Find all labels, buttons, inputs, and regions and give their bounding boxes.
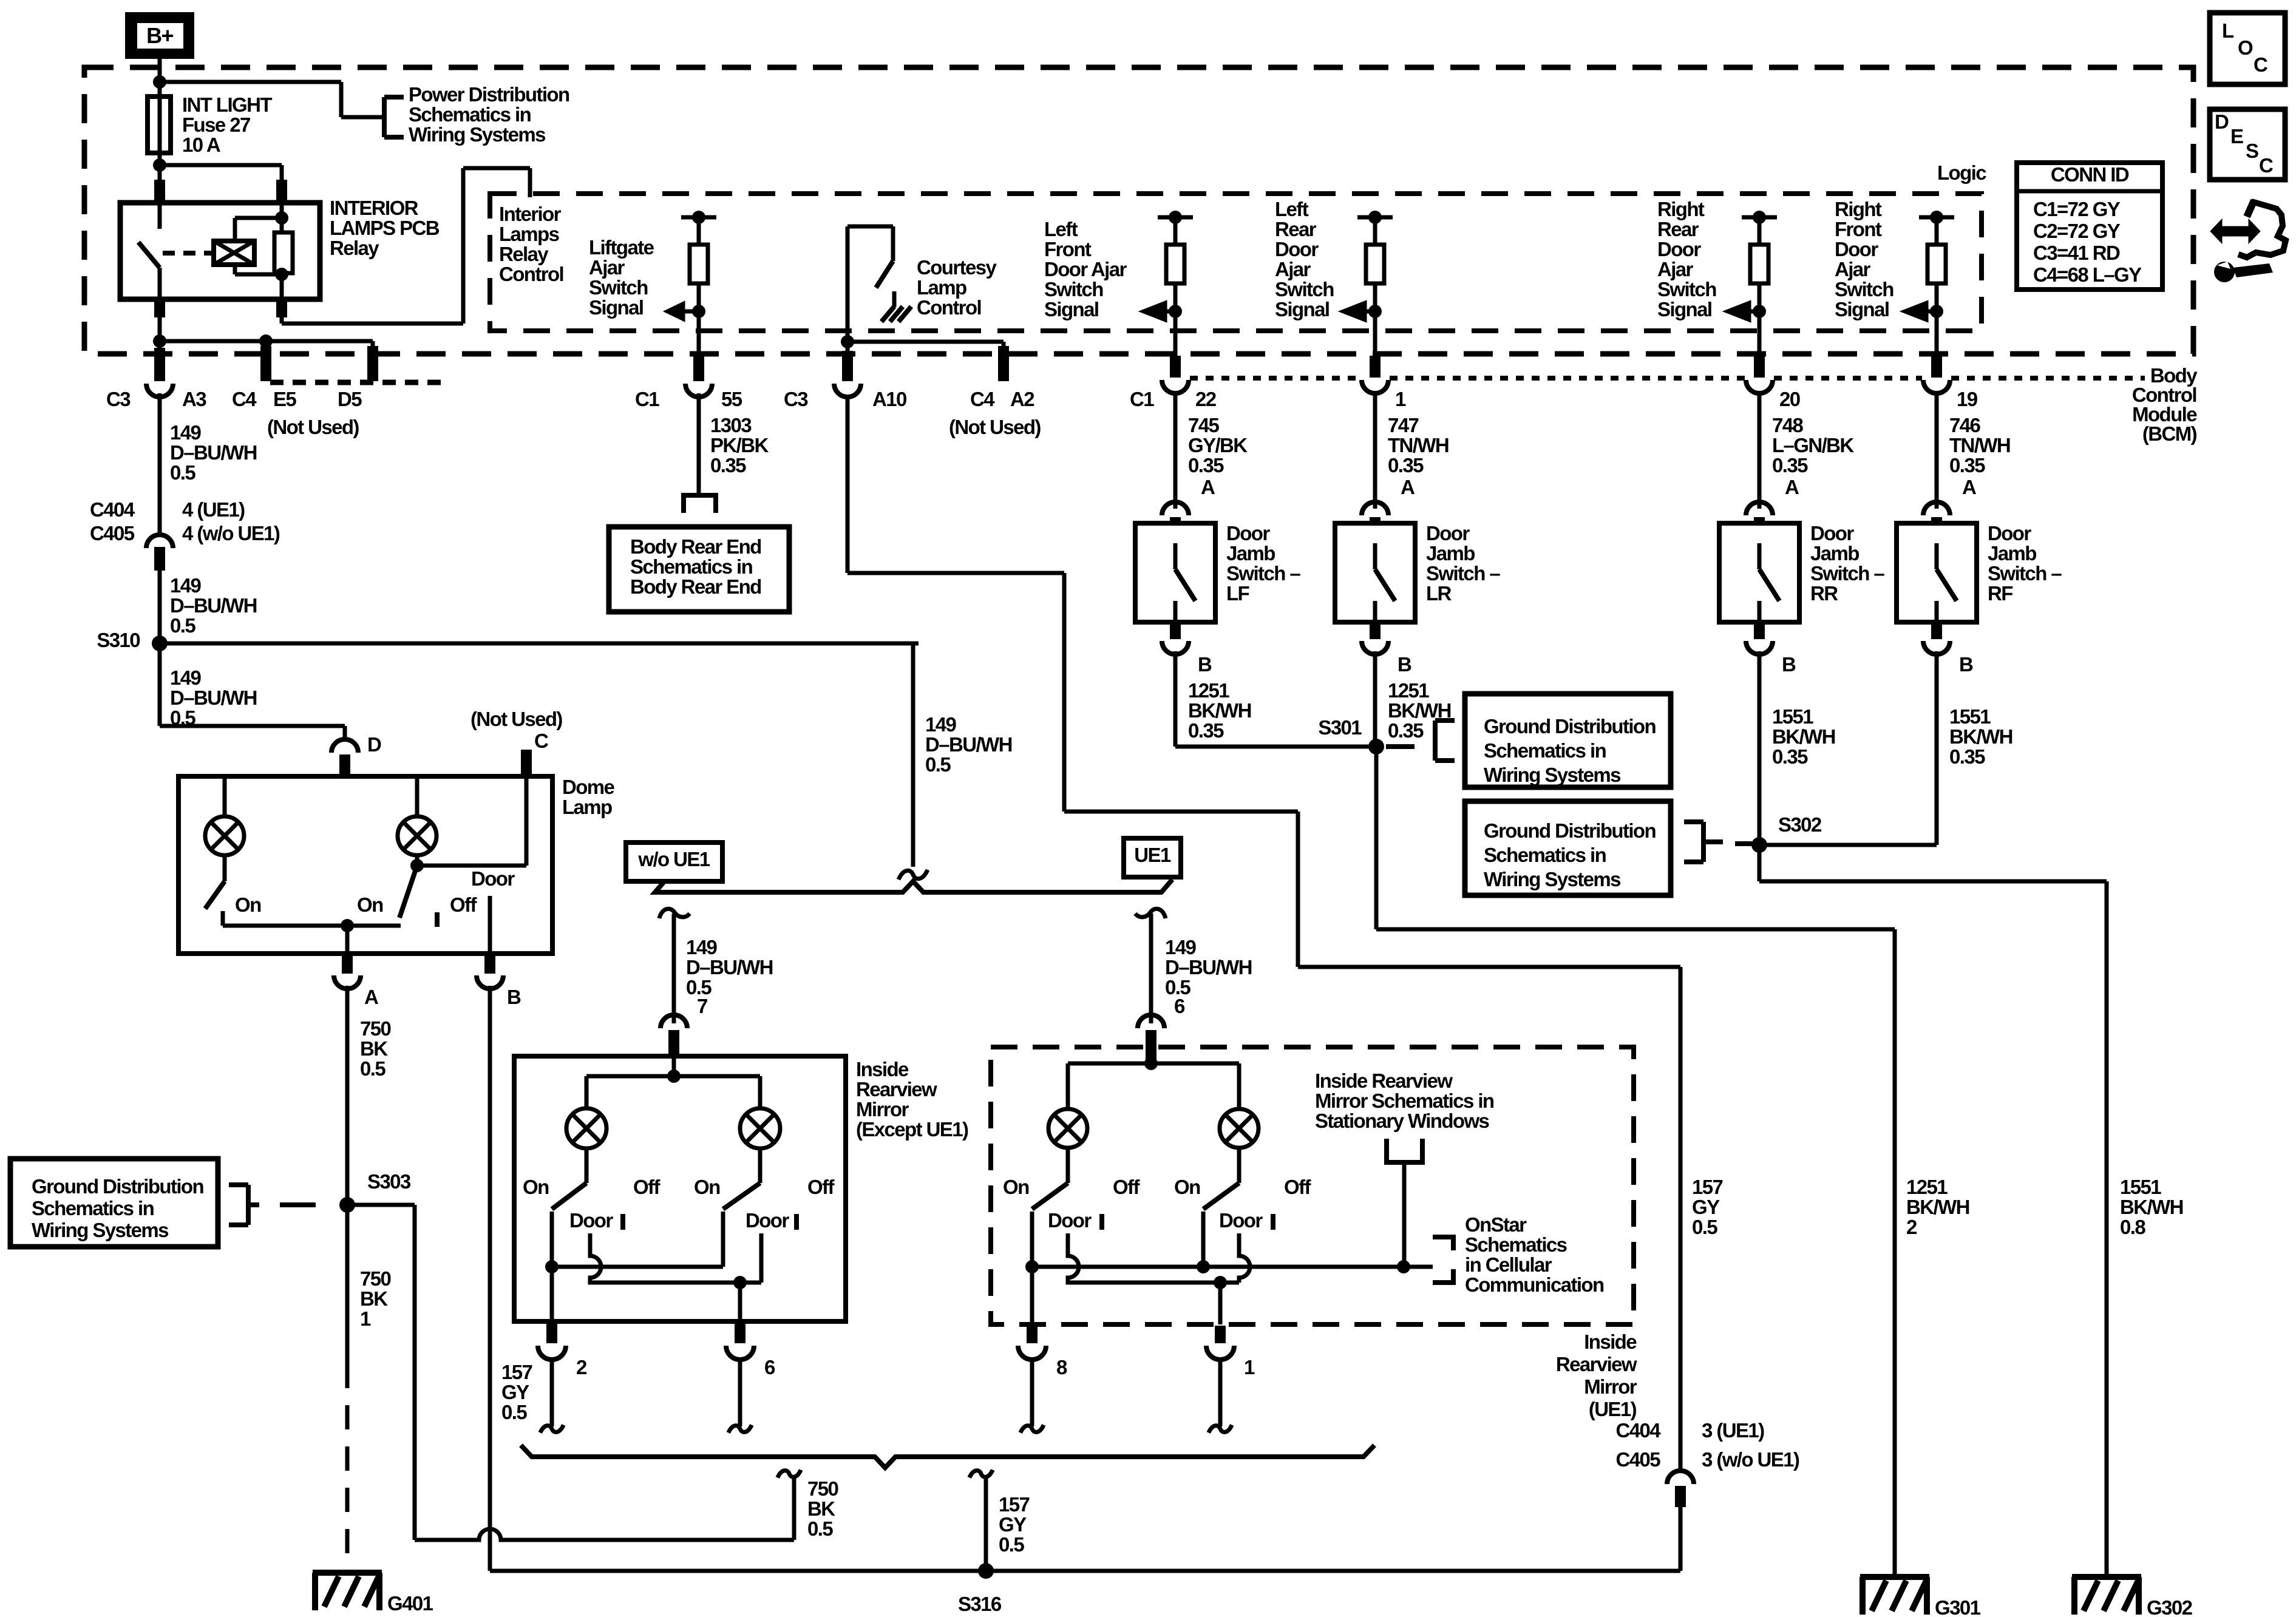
wire relay switch output [158, 317, 162, 349]
svg-text:Jamb: Jamb [1810, 542, 1859, 564]
wire courtesy branch to C4-A2 [847, 340, 1004, 344]
UE1 mirror left lamp [1066, 1063, 1070, 1109]
fine dotted BCM connector line [1190, 376, 1360, 381]
svg-text:Left: Left [1044, 218, 1078, 240]
svg-text:0.35: 0.35 [1388, 719, 1424, 742]
svg-text:Lamps: Lamps [499, 223, 559, 245]
UE1 mirror switch common bus [1032, 1265, 1433, 1269]
node courtesy output [841, 335, 854, 348]
svg-text:LAMPS PCB: LAMPS PCB [330, 217, 440, 239]
svg-text:TN/WH: TN/WH [1388, 434, 1449, 456]
UE1 mirror pin 1 [1218, 1283, 1223, 1324]
svg-text:Stationary Windows: Stationary Windows [1315, 1110, 1489, 1132]
courtesy lamp control switch [846, 226, 850, 342]
svg-text:Courtesy: Courtesy [917, 256, 997, 279]
svg-text:G401: G401 [387, 1592, 433, 1615]
svg-text:Schematics: Schematics [1465, 1233, 1567, 1256]
svg-text:Front: Front [1044, 238, 1092, 260]
wire RR through BCM connector [1758, 311, 1762, 356]
svg-text:B: B [1782, 653, 1796, 676]
svg-text:Off: Off [1284, 1176, 1311, 1198]
connector B jamb switch RF [1931, 622, 1942, 639]
svg-text:C: C [2259, 154, 2273, 177]
svg-text:4 (w/o UE1): 4 (w/o UE1) [182, 522, 280, 544]
in-line connector C404/C405 [146, 535, 173, 548]
svg-text:0.8: 0.8 [2120, 1216, 2145, 1238]
UE1 mirror left switch [1066, 1148, 1070, 1183]
svg-text:0.35: 0.35 [1188, 719, 1224, 742]
svg-text:Ajar: Ajar [1275, 258, 1311, 280]
CONN ID table [2017, 163, 2162, 290]
wire LF through BCM connector [1173, 311, 1178, 356]
curl left branch [659, 909, 690, 918]
svg-text:22: 22 [1195, 388, 1217, 410]
break symbol [898, 870, 928, 880]
svg-text:Door: Door [1810, 522, 1854, 544]
wire with hop over pin B wire [415, 1529, 794, 1540]
svg-text:Switch –: Switch – [1810, 562, 1884, 585]
svg-text:BK: BK [360, 1287, 388, 1310]
svg-text:149: 149 [925, 713, 957, 736]
svg-text:G302: G302 [2147, 1596, 2193, 1617]
wire S310 down to dome lamp [158, 643, 162, 726]
svg-text:A2: A2 [1010, 388, 1034, 410]
svg-text:Mirror: Mirror [856, 1098, 909, 1120]
svg-text:GY/BK: GY/BK [1188, 434, 1248, 456]
mirror left lamp [585, 1076, 589, 1109]
bracket S301 to ground box [1386, 744, 1415, 749]
svg-text:D–BU/WH: D–BU/WH [1165, 956, 1252, 978]
arrow door ajar signal LF [1166, 310, 1175, 314]
svg-text:Switch –: Switch – [1226, 562, 1300, 585]
DESC reference box [2210, 109, 2285, 180]
svg-text:0.5: 0.5 [170, 461, 195, 484]
svg-text:Ajar: Ajar [1835, 258, 1871, 280]
door jamb switch LF box [1135, 523, 1215, 622]
svg-text:C1=72 GY: C1=72 GY [2033, 198, 2121, 220]
svg-text:A: A [364, 986, 378, 1008]
dome switch Door wire to pin B [488, 896, 492, 954]
svg-text:Jamb: Jamb [1426, 542, 1475, 564]
svg-text:A3: A3 [182, 388, 206, 410]
svg-text:Ajar: Ajar [1657, 258, 1694, 280]
bracket S303 to ground box [246, 1185, 251, 1225]
box Ground Distribution (S302) [1465, 801, 1671, 895]
svg-text:7: 7 [697, 995, 707, 1017]
svg-text:S303: S303 [367, 1170, 411, 1193]
wire liftgate to C1-55 [697, 311, 701, 356]
svg-text:Off: Off [1113, 1176, 1140, 1198]
svg-text:Signal: Signal [589, 296, 643, 319]
wire LF jamb B to S301 [1173, 651, 1178, 747]
svg-text:Door: Door [1657, 238, 1701, 260]
connector A jamb switch LF [1162, 502, 1189, 515]
dome switch Off contact [435, 912, 440, 927]
svg-text:149: 149 [170, 574, 202, 597]
relay pin stubs top [154, 180, 165, 202]
svg-text:1251: 1251 [1188, 679, 1229, 702]
box Inside Rearview Mirror UE1 dashed [991, 1047, 1634, 1324]
svg-text:Ground Distribution: Ground Distribution [1484, 715, 1656, 737]
mirror pin 2 [550, 1267, 554, 1323]
UE1 mirror right switch [1237, 1148, 1241, 1183]
svg-text:Door: Door [1426, 522, 1470, 544]
connector A jamb switch RR [1746, 502, 1773, 515]
svg-text:0.35: 0.35 [1388, 454, 1424, 476]
svg-text:C3: C3 [784, 388, 808, 410]
dome lamp pin A [345, 926, 350, 956]
arrow door ajar signal RR [1750, 310, 1759, 314]
svg-text:(UE1): (UE1) [1589, 1398, 1637, 1420]
svg-text:Door: Door [569, 1209, 613, 1232]
svg-text:Wiring Systems: Wiring Systems [32, 1219, 168, 1241]
UE1 mirror right lamp [1237, 1063, 1241, 1109]
wire RF through BCM connector [1935, 311, 1939, 356]
svg-text:Lamp: Lamp [917, 276, 966, 299]
wire RF jamb B to S302 [1935, 651, 1939, 845]
svg-text:1551: 1551 [1949, 705, 1991, 728]
svg-text:B: B [1198, 653, 1212, 676]
svg-text:C1: C1 [635, 388, 659, 410]
svg-text:Inside: Inside [1584, 1331, 1637, 1353]
svg-text:Signal: Signal [1044, 298, 1098, 320]
svg-text:0.5: 0.5 [360, 1057, 385, 1080]
bracket OnStar [1433, 1237, 1453, 1250]
svg-text:S316: S316 [958, 1593, 1002, 1615]
door ajar input resistor RR [1742, 215, 1777, 220]
connector A jamb switch RF [1923, 502, 1950, 515]
wire 750 BK pin A to S303 [345, 986, 350, 1205]
splice S303 [339, 1197, 355, 1213]
svg-text:Dome: Dome [562, 776, 615, 798]
svg-text:Rearview: Rearview [1556, 1353, 1637, 1375]
svg-text:L–GN/BK: L–GN/BK [1772, 434, 1854, 456]
svg-text:INT LIGHT: INT LIGHT [182, 93, 272, 116]
svg-text:D–BU/WH: D–BU/WH [925, 733, 1012, 756]
box Dome Lamp [178, 776, 552, 954]
svg-text:Body Rear End: Body Rear End [630, 575, 761, 598]
svg-text:BK: BK [360, 1037, 388, 1060]
svg-text:Interior: Interior [499, 203, 562, 225]
svg-text:PK/BK: PK/BK [710, 434, 769, 456]
svg-text:Door: Door [1835, 238, 1878, 260]
svg-text:149: 149 [170, 421, 202, 444]
LOC reference box [2210, 13, 2285, 84]
door jamb switch LR box [1335, 523, 1415, 622]
svg-text:1: 1 [1244, 1356, 1255, 1378]
svg-text:C: C [2254, 53, 2267, 76]
svg-text:BK: BK [807, 1497, 835, 1520]
svg-text:G301: G301 [1935, 1596, 1981, 1617]
battery feed B+ symbol [125, 12, 194, 59]
svg-text:0.35: 0.35 [1949, 745, 1985, 768]
svg-text:E: E [2230, 125, 2243, 147]
wire LR through BCM connector [1373, 311, 1377, 356]
svg-text:0.5: 0.5 [501, 1401, 527, 1423]
svg-text:Door: Door [1219, 1209, 1263, 1232]
courtesy switch ground [892, 291, 897, 307]
wire S301 to G301 [1374, 747, 1379, 929]
svg-text:A: A [1962, 476, 1976, 498]
svg-text:747: 747 [1388, 414, 1419, 436]
wire LR jamb B to S301 [1373, 651, 1377, 747]
svg-text:BK/WH: BK/WH [1949, 725, 2012, 748]
svg-text:C1: C1 [1130, 388, 1154, 410]
svg-text:A: A [1201, 476, 1215, 498]
svg-text:Switch: Switch [1657, 278, 1716, 300]
svg-text:B: B [1398, 653, 1411, 676]
bottom wire to C404/C405 [490, 1569, 1680, 1573]
svg-text:Control: Control [917, 296, 981, 319]
connector B jamb switch LR [1370, 622, 1381, 639]
svg-text:B: B [1959, 653, 1973, 676]
dashed wire to G401 [345, 1364, 350, 1570]
svg-text:Switch –: Switch – [1426, 562, 1500, 585]
UE1 mirror feed node [1144, 1057, 1158, 1070]
svg-text:D5: D5 [338, 388, 362, 410]
fuse INT LIGHT Fuse 27 10A [148, 97, 171, 153]
svg-text:Jamb: Jamb [1226, 542, 1275, 564]
svg-text:Door: Door [471, 867, 515, 890]
svg-text:Signal: Signal [1835, 298, 1889, 320]
svg-text:LF: LF [1226, 582, 1249, 605]
svg-text:Rearview: Rearview [856, 1078, 937, 1100]
svg-text:INTERIOR: INTERIOR [330, 197, 419, 219]
bracket S302 to ground box [1701, 822, 1706, 862]
svg-text:LR: LR [1426, 582, 1452, 605]
svg-text:C404: C404 [1616, 1419, 1662, 1442]
node door ajar signal LF [1169, 305, 1182, 318]
svg-text:149: 149 [170, 666, 202, 689]
svg-text:6: 6 [764, 1356, 775, 1378]
svg-text:S: S [2246, 140, 2258, 162]
svg-text:C4: C4 [970, 388, 995, 410]
mirror right lamp [758, 1076, 763, 1109]
connector stubs A3 E5 D5 [154, 348, 165, 381]
svg-text:157: 157 [1692, 1176, 1723, 1198]
svg-text:Relay: Relay [499, 243, 549, 265]
svg-text:0.5: 0.5 [999, 1533, 1024, 1556]
svg-text:Power Distribution: Power Distribution [409, 83, 569, 106]
bracket Power Distribution [382, 97, 387, 137]
svg-text:1251: 1251 [1906, 1176, 1948, 1198]
svg-text:Jamb: Jamb [1988, 542, 2036, 564]
svg-text:Door: Door [1048, 1209, 1092, 1232]
relay INTERIOR LAMPS PCB Relay box [120, 203, 320, 299]
wire 748 L–GN/BK RR [1758, 393, 1762, 509]
svg-text:C2=72 GY: C2=72 GY [2033, 220, 2121, 242]
wire fuse to relay coil side [160, 163, 282, 168]
wire B+ to fuse [158, 59, 162, 97]
wire S303 branch to mirror ground bus [347, 1203, 415, 1207]
svg-text:1: 1 [1395, 388, 1406, 410]
node below fuse [153, 158, 166, 172]
svg-text:Door: Door [1275, 238, 1319, 260]
svg-text:Inside: Inside [856, 1058, 909, 1080]
wire relay coil output to Interior Lamps Relay Control [280, 317, 284, 324]
svg-text:0.5: 0.5 [807, 1517, 833, 1540]
relay actuation dashed link [163, 251, 212, 256]
arrow door ajar signal RF [1927, 310, 1937, 314]
dome lamp switch [410, 859, 424, 872]
svg-text:B+: B+ [146, 23, 173, 48]
svg-text:Front: Front [1835, 218, 1882, 240]
svg-text:On: On [1174, 1176, 1200, 1198]
svg-text:Fuse 27: Fuse 27 [182, 114, 250, 136]
curl right branch [1135, 909, 1166, 918]
ground G301 [1860, 1574, 1929, 1580]
svg-text:Switch: Switch [1275, 278, 1334, 300]
svg-text:Body Rear End: Body Rear End [630, 535, 761, 558]
wire S302 to G302 [1758, 845, 1762, 881]
svg-text:A10: A10 [872, 388, 906, 410]
svg-text:C4=68 L–GY: C4=68 L–GY [2033, 263, 2142, 286]
node liftgate signal [692, 305, 705, 318]
svg-text:8: 8 [1056, 1356, 1067, 1378]
svg-text:Mirror Schematics in: Mirror Schematics in [1315, 1090, 1494, 1112]
reading lamp [223, 776, 227, 816]
box option w/o UE1 [626, 842, 722, 881]
mirror right Off contact [794, 1214, 799, 1230]
svg-text:Schematics in: Schematics in [409, 103, 531, 126]
svg-text:Door Ajar: Door Ajar [1044, 258, 1127, 280]
wire S310 branch right [160, 642, 919, 646]
wire 157 GY riser [1679, 1507, 1683, 1571]
UE1 mirror left Off contact [1099, 1214, 1104, 1230]
svg-text:BK/WH: BK/WH [1772, 725, 1835, 748]
svg-text:Ground Distribution: Ground Distribution [1484, 819, 1656, 842]
svg-text:CONN ID: CONN ID [2051, 163, 2129, 186]
svg-text:Logic: Logic [1937, 161, 1986, 184]
svg-text:Inside Rearview: Inside Rearview [1315, 1070, 1453, 1092]
svg-text:On: On [357, 893, 383, 916]
connector B jamb switch LF [1170, 622, 1181, 639]
wire pin B down to bottom bus [488, 986, 492, 1571]
svg-text:(Not Used): (Not Used) [470, 708, 562, 730]
svg-text:C405: C405 [90, 522, 135, 544]
svg-text:Ground Distribution: Ground Distribution [32, 1175, 203, 1198]
svg-text:Schematics in: Schematics in [32, 1197, 154, 1219]
splice S316 [978, 1563, 994, 1579]
UE1 mirror pin 8 [1030, 1267, 1034, 1324]
connector dashed row C4 (Not Used) [270, 380, 449, 385]
svg-text:On: On [235, 893, 261, 916]
svg-text:S310: S310 [97, 629, 140, 651]
svg-text:w/o UE1: w/o UE1 [637, 848, 710, 870]
liftgate ajar input resistor [681, 215, 716, 220]
option split bus [655, 880, 1172, 892]
svg-text:C404: C404 [90, 498, 135, 521]
svg-text:Right: Right [1657, 198, 1705, 220]
svg-text:Left: Left [1275, 198, 1309, 220]
svg-text:BK/WH: BK/WH [1188, 699, 1251, 722]
svg-text:Signal: Signal [1657, 298, 1711, 320]
ground G401 [313, 1570, 382, 1576]
splice S310 [152, 636, 168, 651]
mirror right switch [758, 1148, 763, 1183]
relay coil [214, 241, 254, 265]
svg-text:(Not Used): (Not Used) [949, 416, 1041, 438]
box Ground Distribution (S303) [10, 1159, 218, 1247]
door ajar input resistor LR [1357, 215, 1393, 220]
svg-text:Wiring Systems: Wiring Systems [409, 123, 545, 146]
svg-text:BK/WH: BK/WH [2120, 1196, 2183, 1218]
svg-text:GY: GY [501, 1381, 529, 1403]
svg-text:GY: GY [1692, 1196, 1720, 1218]
door jamb switch RF box [1897, 523, 1977, 622]
svg-text:748: 748 [1772, 414, 1804, 436]
connector D dome lamp [331, 739, 358, 753]
svg-text:Rear: Rear [1657, 218, 1699, 240]
svg-text:0.5: 0.5 [925, 753, 951, 776]
svg-text:Schematics in: Schematics in [1484, 739, 1606, 762]
svg-text:Signal: Signal [1275, 298, 1329, 320]
svg-text:745: 745 [1188, 414, 1220, 436]
svg-text:On: On [694, 1176, 720, 1198]
svg-text:D–BU/WH: D–BU/WH [170, 441, 257, 464]
connector A jamb switch LR [1362, 502, 1388, 515]
svg-text:Rear: Rear [1275, 218, 1317, 240]
curl 157 GY drop [970, 1470, 993, 1478]
svg-text:RR: RR [1810, 582, 1838, 605]
node door ajar signal LR [1368, 305, 1382, 318]
svg-text:2: 2 [1906, 1216, 1917, 1238]
svg-text:C4: C4 [232, 388, 257, 410]
wire 747 TN/WH LR [1373, 393, 1377, 509]
svg-text:2: 2 [576, 1356, 587, 1378]
svg-text:Lamp: Lamp [562, 796, 612, 818]
svg-text:B: B [507, 986, 521, 1008]
svg-text:Right: Right [1835, 198, 1882, 220]
box option UE1 [1124, 838, 1181, 877]
dome lamp [415, 776, 419, 816]
arrow liftgate signal [684, 310, 699, 314]
node door ajar signal RF [1930, 305, 1943, 318]
arrow door ajar signal LR [1365, 310, 1375, 314]
svg-text:L: L [2222, 19, 2234, 42]
svg-text:Off: Off [633, 1176, 661, 1198]
connector arc A3 [146, 384, 173, 397]
svg-text:157: 157 [501, 1361, 532, 1383]
splice S302 [1751, 837, 1767, 853]
svg-text:Wiring Systems: Wiring Systems [1484, 764, 1620, 786]
svg-text:149: 149 [1165, 936, 1197, 958]
connector B jamb switch RR [1754, 622, 1765, 639]
svg-text:Schematics in: Schematics in [1484, 844, 1606, 866]
node door ajar signal RR [1753, 305, 1766, 318]
wire 745 GY/BK LF [1173, 393, 1178, 509]
svg-text:Mirror: Mirror [1584, 1375, 1637, 1398]
mirror switch common bus [552, 1265, 723, 1269]
wire 1303 PK/BK to Body Rear End [697, 393, 701, 495]
svg-text:6: 6 [1174, 995, 1185, 1017]
svg-text:Ajar: Ajar [589, 256, 625, 279]
svg-text:Schematics in: Schematics in [630, 555, 753, 578]
Body Control Module outer dashed box [84, 67, 2193, 354]
dome lamp pin B [484, 954, 495, 974]
svg-text:20: 20 [1779, 388, 1800, 410]
svg-text:(BCM): (BCM) [2142, 422, 2197, 445]
svg-text:0.35: 0.35 [710, 454, 746, 476]
svg-text:0.35: 0.35 [1188, 454, 1224, 476]
svg-text:Door: Door [1988, 522, 2031, 544]
svg-text:C3=41 RD: C3=41 RD [2033, 242, 2120, 264]
svg-text:D–BU/WH: D–BU/WH [686, 956, 773, 978]
svg-text:A: A [1401, 476, 1415, 498]
svg-text:157: 157 [999, 1493, 1030, 1516]
svg-text:(Not Used): (Not Used) [267, 416, 359, 438]
wire 149 to S310 [158, 571, 162, 643]
